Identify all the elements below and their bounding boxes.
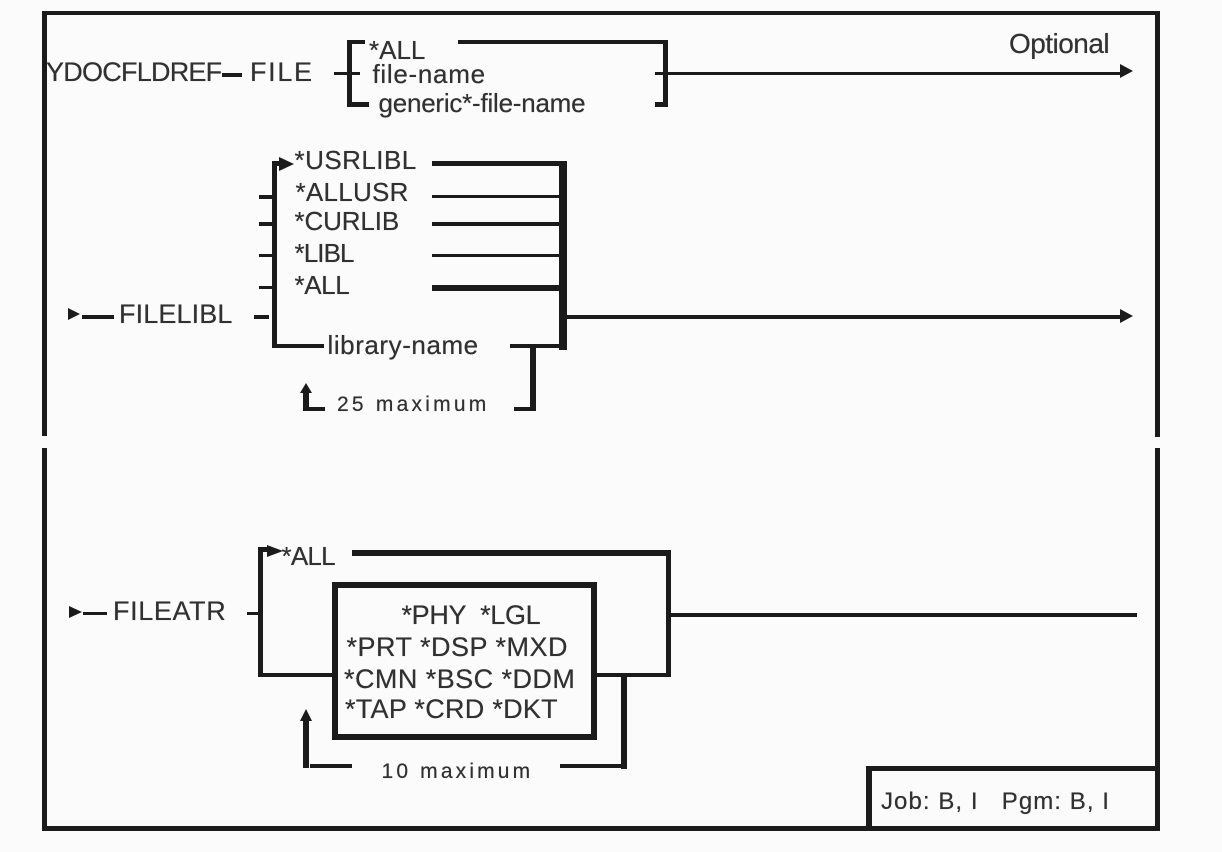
dash after entry arrow <box>82 315 114 319</box>
tick *ALLUSR <box>259 195 272 199</box>
wire rail *LIBL <box>432 254 563 258</box>
wire lower path right of box <box>595 673 671 678</box>
FILEATR branch right vertical <box>666 550 672 677</box>
wire tick into FILEATR branch <box>247 612 261 616</box>
wire tick into FILE branch <box>334 72 360 75</box>
value *ALL (FILE default) <box>369 37 425 63</box>
loop 25 up arrowhead <box>300 383 312 393</box>
wire lower path left of box <box>263 673 333 678</box>
wire main line 2 to arrow <box>563 315 1121 319</box>
FILELIBL branch right thick vertical <box>559 161 567 351</box>
wire top rail after *ALL <box>458 40 668 45</box>
tick *LIBL <box>259 254 272 258</box>
value *USRLIBL <box>295 147 417 173</box>
arrowhead main line 1 <box>1120 64 1133 78</box>
wire rail *ALL <box>432 285 563 291</box>
wire rail *CURLIB <box>432 222 563 226</box>
wire rail *USRLIBL <box>432 161 563 167</box>
value *ALL <box>295 272 350 298</box>
wire rail *ALLUSR <box>432 195 563 199</box>
loop 10 right vertical <box>621 677 627 769</box>
frame bottom border <box>42 826 1160 831</box>
environment box left edge <box>866 766 872 830</box>
arrowhead section 3 entry <box>69 606 82 618</box>
wire library-name corner line <box>272 344 324 348</box>
FILELIBL branch left vertical <box>272 161 277 348</box>
label FILELIBL <box>119 301 232 328</box>
frame left border lower <box>42 448 47 830</box>
label 25 maximum <box>337 394 490 415</box>
wire main line 1 to arrow <box>655 72 1121 75</box>
loop 25 bottom right tick <box>514 407 530 411</box>
arrowhead section 2 entry <box>68 308 80 320</box>
loop 10 up shaft <box>303 719 309 768</box>
FILE branch bottom-left corner arm <box>347 102 369 107</box>
value *CURLIB <box>295 208 400 234</box>
arrowhead default *USRLIBL <box>279 157 294 171</box>
value library-name <box>328 332 479 358</box>
loop 10 up arrowhead <box>300 709 312 721</box>
frame left border upper <box>42 11 47 436</box>
label Optional <box>1009 30 1109 58</box>
value row *PRT *DSP *MXD <box>347 634 568 661</box>
value row *CMN *BSC *DDM <box>344 666 575 693</box>
wire after library-name <box>510 344 567 348</box>
value *ALLUSR <box>296 179 409 205</box>
loop 10 bottom right line <box>560 764 626 769</box>
frame top border <box>42 11 1160 15</box>
frame right border upper <box>1155 11 1160 437</box>
FILE branch right bracket vertical <box>663 40 668 108</box>
loop 25 right vertical <box>530 345 536 411</box>
FILE branch right bottom tick <box>655 102 668 107</box>
value row *TAP *CRD *DKT <box>345 696 558 723</box>
label 10 maximum <box>382 761 534 782</box>
tick *ALL <box>259 286 272 290</box>
environment box top edge <box>866 766 1160 771</box>
FILELIBL branch top corner arm <box>272 161 280 167</box>
loop 25 bottom left line <box>308 407 325 411</box>
label YDOCFLDREF <box>46 59 221 86</box>
FILEATR branch left vertical <box>258 547 264 678</box>
tick *CURLIB <box>259 222 272 226</box>
dash after YDOCFLDREF <box>222 73 243 77</box>
label Job: B, I Pgm: B, I <box>881 790 1110 814</box>
wire main line 3 <box>671 613 1137 617</box>
loop 10 bottom left line <box>310 764 352 769</box>
dash after entry arrow <box>83 612 107 616</box>
value *ALL (FILEATR default) <box>282 543 335 569</box>
value file-name <box>373 61 486 87</box>
value generic*-file-name <box>379 90 586 116</box>
wire rail after *ALL <box>352 550 671 556</box>
FILE branch left bracket vertical <box>347 40 352 108</box>
arrowhead main line 2 <box>1120 309 1133 323</box>
frame right border lower <box>1155 448 1160 830</box>
label FILEATR <box>113 598 226 625</box>
FILEATR branch top corner arm <box>258 547 270 553</box>
wire tick into FILELIBL branch <box>254 315 269 319</box>
loop 25 up shaft <box>303 391 309 411</box>
attribute values box <box>332 582 597 741</box>
value *LIBL <box>295 240 354 266</box>
FILE branch top-left corner arm <box>347 40 365 45</box>
value row *PHY *LGL <box>402 602 541 629</box>
label FILE <box>250 59 314 86</box>
arrowhead default *ALL <box>267 545 283 557</box>
